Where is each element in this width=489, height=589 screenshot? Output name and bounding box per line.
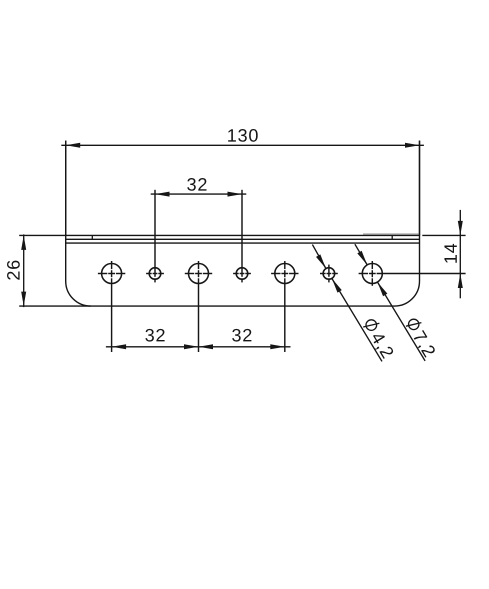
dim 130 line [61,144,424,146]
hole 3 large circle [189,264,209,284]
dim 130 arrow left [66,143,81,148]
dim 130 arrow right [405,143,420,148]
hole 2 small circle [149,268,161,280]
dim 32 bottom arrow far-left [112,344,127,349]
hole 5 centerlines [271,261,298,352]
dim 26 line [23,234,25,307]
leader for 4,2 upper segment [312,245,326,269]
hole 1 centerlines [98,261,125,352]
hole 7 large circle [362,264,382,284]
dim 130 extension left [65,141,67,236]
hole 7 centerlines + extension to 14 dim [359,261,466,286]
faint edge line right [363,233,420,235]
dim 32 bottom arrow far-right [270,344,285,349]
dim 14 arrow top (outside, pointing down) [458,221,463,236]
dim 26 arrow bottom [21,292,26,307]
band tick right [391,235,393,239]
dim 32 top arrow right [228,192,243,197]
text dia 4,2 digits (rotated along leader) [373,335,393,359]
band tick left [91,235,93,239]
hole 3 centerlines [185,261,212,352]
leader 4,2 arrow upper [316,254,326,268]
leader for 7,2 upper segment [355,244,367,265]
dim 130 extension right [419,141,421,236]
leader 7,2 arrow lower [378,282,388,296]
diameter symbol for 4,2 [363,320,379,331]
text 14 (rotated) [444,244,456,263]
hole 4 small circle [236,268,248,280]
hole 6 centerlines [320,265,338,283]
plate top band line 1 [66,234,420,236]
text dia 7,2 digits (rotated along leader) [414,330,435,358]
dim 32 top line [151,193,247,195]
leader 4,2 arrow lower [332,279,342,293]
text 32 bottom left [145,329,164,342]
dim 26 extension bottom [19,305,91,307]
hole 6 small circle [323,268,335,280]
dim 26 extension top [19,234,65,236]
dim 14 extension top [422,234,465,236]
hole 1 large circle [102,264,122,284]
hole 4 centerlines [233,190,251,283]
plate top band line 2 [66,238,420,240]
dim 32 bottom arrows middle [184,344,199,349]
diameter symbol for 7,2 [406,319,421,329]
text 26 (rotated) [7,261,20,280]
dim 14 line [459,210,461,298]
dim 32 top arrow left [155,192,170,197]
dim 32 bottom line [106,346,291,348]
leader 7,2 arrow upper [357,251,367,265]
plate outline (left edge, rounded bottom corners, bottom edge, right edge) [66,141,420,307]
dim 26 arrow top [21,235,26,250]
hole 2 centerlines [146,190,164,283]
text 130 [228,129,258,142]
hole 5 large circle [275,264,295,284]
text 32 bottom right [232,329,251,342]
dim 14 arrow bottom (outside, pointing up) [458,274,463,289]
plate top band line 3 [66,242,420,244]
leader for 7,2 lower segment [378,282,426,361]
leader for 4,2 lower segment [332,279,382,362]
text 32 top [187,178,206,191]
